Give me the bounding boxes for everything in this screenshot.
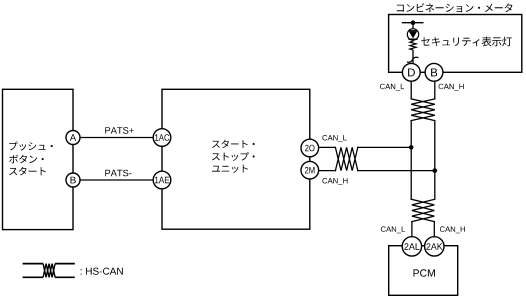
legend twist wire A — [43, 264, 55, 278]
label security indicator lamp — [421, 37, 512, 47]
wire PATS- (B to 1AE) — [73, 179, 162, 181]
label push-button-start line2 — [9, 155, 44, 164]
twisted pair HS-CAN horizontal wire B — [335, 147, 357, 170]
box combination meter — [389, 15, 522, 73]
box push-button-start unit — [3, 89, 74, 229]
label wire PATS+ — [105, 127, 134, 134]
wire CAN_L from 2O to twisted pair — [310, 146, 336, 148]
legend twisted pair top-right line — [55, 263, 75, 265]
twisted pair HS-CAN vertical bus-to-PCM wire A — [412, 199, 434, 221]
connector D — [402, 63, 420, 81]
label wire PATS- — [105, 170, 131, 177]
wire break squiggle — [407, 57, 419, 62]
box start-stop unit — [162, 89, 310, 229]
junction dot above LED — [411, 20, 416, 25]
wire PATS+ (A to 1AC) — [73, 137, 162, 139]
wire from resistor to connector D — [412, 50, 414, 64]
label CAN_L above 2AL — [381, 226, 405, 233]
legend twisted pair bottom-right line — [55, 276, 75, 278]
wire stub below connector D — [410, 81, 412, 99]
label start-stop-unit line3 — [212, 165, 248, 173]
label start-stop-unit line2 — [212, 152, 255, 161]
LED triangle — [409, 31, 417, 38]
label CAN_H above 2AK — [440, 226, 465, 233]
title combination meter — [397, 3, 513, 12]
wire CAN_H from twisted pair to right bus junction — [358, 170, 435, 172]
connector 1AE — [153, 171, 171, 189]
label CAN_L at 2O — [322, 135, 346, 142]
legend twist wire B — [43, 264, 55, 278]
legend label HS-CAN — [81, 268, 123, 275]
label push-button-start line3 — [9, 167, 46, 176]
LED lamp circle — [407, 29, 418, 40]
label PCM — [414, 269, 435, 276]
twisted pair HS-CAN vertical meter-to-bus wire B — [411, 99, 435, 121]
label push-button-start line1 — [9, 142, 53, 151]
label CAN_H under B — [439, 84, 464, 91]
wire from dot to LED — [412, 23, 414, 29]
connector 2AL — [402, 237, 421, 256]
twisted pair HS-CAN vertical bus-to-PCM wire B — [412, 199, 434, 221]
LED supply line in meter — [402, 22, 424, 24]
junction dot CAN_L on left bus — [409, 145, 414, 150]
label CAN_H at 2M — [322, 178, 347, 185]
LED anode bar — [408, 30, 417, 32]
LED cathode bar — [408, 38, 417, 40]
label CAN_L under D — [380, 84, 404, 91]
legend twisted pair bottom-left line — [23, 276, 43, 278]
twisted pair HS-CAN vertical meter-to-bus wire A — [411, 99, 435, 121]
label start-stop-unit line1 — [212, 140, 255, 148]
wire CAN_H bus vertical right — [434, 121, 436, 200]
connector 2AK — [425, 237, 444, 256]
wire stub above connector 2AL — [411, 222, 413, 238]
junction dot CAN_H on right bus — [433, 168, 438, 173]
connector 2M — [301, 161, 319, 179]
wire CAN_L from twisted pair to left bus junction — [358, 146, 411, 148]
connector B of meter — [425, 63, 443, 81]
legend twisted pair top-left line — [23, 263, 43, 265]
wire stub below connector B of meter — [434, 81, 436, 99]
wire CAN_L bus vertical left — [410, 121, 412, 200]
connector A — [66, 131, 80, 145]
connector 2O — [301, 139, 319, 157]
connector B — [66, 173, 80, 187]
resistor zigzag below LED — [410, 40, 416, 50]
wire CAN_H from 2M to twisted pair — [310, 170, 336, 172]
wire stub above connector 2AK — [433, 222, 435, 238]
box PCM — [389, 246, 458, 296]
connector 1AC — [153, 129, 171, 147]
twisted pair HS-CAN horizontal wire A — [335, 147, 357, 170]
